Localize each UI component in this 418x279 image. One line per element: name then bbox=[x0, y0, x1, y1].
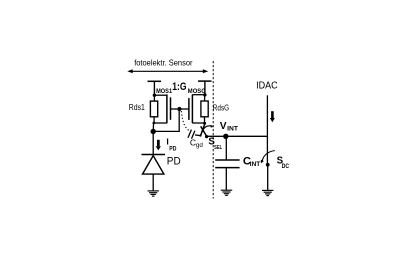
transistor MOSG bbox=[189, 94, 205, 123]
wire V_INT down to C_INT bbox=[225, 136, 227, 159]
svg-text:Rds1: Rds1 bbox=[129, 102, 145, 112]
wire gate node down bbox=[178, 109, 180, 131]
supply T-bar right bbox=[198, 81, 212, 94]
wire A2 to RdsG bbox=[204, 95, 206, 101]
ground (below PD) bbox=[148, 191, 159, 196]
node dot A1 bbox=[153, 94, 156, 97]
resistor Rds1 bbox=[150, 101, 157, 117]
wire C_INT down to ground bbox=[225, 168, 227, 190]
wire Rds1 bottom bbox=[153, 117, 155, 123]
svg-text:RdsG: RdsG bbox=[213, 103, 229, 113]
svg-text:PD: PD bbox=[169, 145, 176, 152]
node dot PD node (big) bbox=[151, 129, 156, 134]
supply T-bar left bbox=[148, 81, 162, 94]
svg-text:PD: PD bbox=[167, 156, 181, 168]
svg-text:INT: INT bbox=[227, 125, 238, 132]
svg-text:MOS1: MOS1 bbox=[156, 88, 172, 95]
node dot B1 bbox=[153, 122, 156, 125]
node dot V_INT bbox=[223, 134, 228, 139]
svg-text:IDAC: IDAC bbox=[256, 81, 278, 92]
svg-text:DC: DC bbox=[282, 163, 290, 170]
node dot B2 bbox=[203, 122, 206, 125]
dimension arrow under label bbox=[127, 69, 208, 73]
transistor MOS1 bbox=[154, 94, 180, 123]
wire B1 down to PD node bbox=[152, 123, 154, 132]
gate node dot bbox=[177, 107, 181, 111]
svg-text:V: V bbox=[220, 121, 227, 132]
svg-text:1:G: 1:G bbox=[172, 81, 186, 93]
wire IDAC branch bbox=[266, 95, 268, 165]
photodiode wire from PD node bbox=[152, 132, 154, 155]
wire RdsG bottom bbox=[204, 117, 206, 123]
parasitic dotted wire (gate to Cgd) bbox=[181, 112, 190, 132]
wire A1 to Rds1 bbox=[153, 95, 155, 101]
ground (below C_INT) bbox=[221, 190, 232, 195]
wire gate node to MOSG gate bbox=[179, 108, 189, 110]
resistor RdsG bbox=[201, 101, 208, 117]
switch S_SEL (crossing contacts) bbox=[200, 124, 207, 137]
ground (below S_DC) bbox=[262, 190, 273, 195]
wire V_INT rail bbox=[207, 135, 268, 137]
switch S_DC actuation arc bbox=[262, 151, 275, 162]
node dot A2 bbox=[203, 93, 206, 96]
node dot switch output bbox=[205, 135, 208, 138]
svg-text:MOSG: MOSG bbox=[188, 88, 206, 95]
capacitor C_INT bbox=[215, 160, 239, 168]
current arrow I_PD bbox=[156, 140, 161, 151]
photodiode PD bbox=[142, 155, 166, 191]
wire PD node to gate drop (diode connection) bbox=[153, 130, 180, 132]
node dot S_DC bbox=[266, 163, 270, 167]
svg-text:gd: gd bbox=[196, 142, 204, 149]
svg-text:INT: INT bbox=[250, 161, 261, 168]
wire S_DC to ground bbox=[267, 165, 269, 190]
current arrow IDAC bbox=[270, 111, 275, 122]
svg-text:fotoelektr. Sensor: fotoelektr. Sensor bbox=[134, 58, 193, 68]
capacitor Cgd (diagonal plates) bbox=[188, 130, 201, 139]
switch S_SEL actuation arc bbox=[201, 126, 212, 135]
dashed boundary line bbox=[212, 61, 214, 199]
svg-text:SEL: SEL bbox=[214, 145, 222, 151]
